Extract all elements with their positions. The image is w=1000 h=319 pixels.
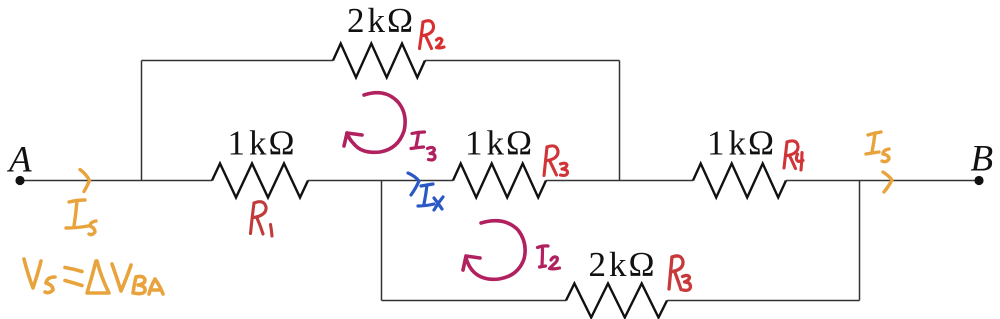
wire bottom branch right leg bbox=[859, 181, 861, 301]
wire R4 to B bbox=[786, 180, 979, 182]
resistor R3 bottom zigzag bbox=[566, 284, 667, 318]
annotation mesh loop I2 bbox=[463, 221, 525, 280]
svg-text:A: A bbox=[6, 140, 32, 181]
wire bottom branch left horizontal bbox=[382, 300, 567, 302]
annotation R3 middle red bbox=[544, 146, 568, 176]
annotation I2 label bbox=[538, 246, 560, 269]
wire top branch left horizontal bbox=[142, 60, 334, 62]
resistor R2 zigzag bbox=[333, 44, 425, 78]
annotation I3 label bbox=[411, 132, 435, 160]
svg-text:2kΩ: 2kΩ bbox=[589, 245, 655, 284]
annotation Ix arrow blue bbox=[408, 173, 419, 195]
svg-text:1kΩ: 1kΩ bbox=[707, 124, 774, 163]
svg-text:B: B bbox=[971, 139, 994, 180]
annotation R4 red bbox=[784, 141, 803, 170]
annotation R1 red bbox=[251, 202, 273, 236]
resistor R3 middle zigzag bbox=[453, 164, 546, 198]
svg-text:1kΩ: 1kΩ bbox=[228, 124, 295, 163]
annotation mesh loop I3 bbox=[344, 93, 405, 153]
svg-text:1kΩ: 1kΩ bbox=[465, 124, 532, 163]
wire R1 to R3 bbox=[308, 180, 453, 182]
wire top branch right leg bbox=[619, 61, 621, 181]
node A dot bbox=[15, 176, 24, 185]
annotation Is arrow on wire bbox=[80, 170, 90, 192]
node B dot bbox=[974, 176, 983, 185]
wire top branch left leg bbox=[141, 61, 143, 181]
annotation R3 bottom red bbox=[669, 256, 691, 290]
wire main A to R1 bbox=[20, 180, 212, 182]
wire R3 to R4 bbox=[546, 180, 693, 182]
annotation Is label bbox=[66, 200, 96, 235]
annotation I5 near B bbox=[866, 132, 892, 192]
annotation R2 red bbox=[420, 21, 445, 49]
resistor R4 zigzag bbox=[693, 164, 786, 198]
wire bottom branch left leg bbox=[381, 181, 383, 301]
annotation Ix label blue bbox=[418, 184, 443, 210]
resistor R1 zigzag bbox=[212, 164, 308, 198]
svg-text:2kΩ: 2kΩ bbox=[347, 1, 413, 40]
annotation Vs = dVBA bbox=[24, 259, 163, 294]
wire top branch right horizontal bbox=[425, 60, 620, 62]
wire bottom branch right horizontal bbox=[667, 300, 860, 302]
